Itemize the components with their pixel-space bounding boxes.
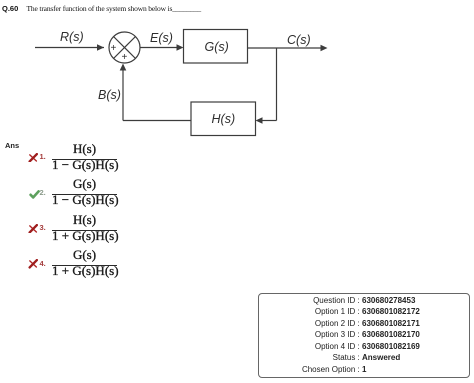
svg-text:C(s): C(s) [287,33,311,47]
svg-text:R(s): R(s) [60,30,84,44]
svg-text:+: + [111,43,117,54]
svg-text:G(s): G(s) [205,40,229,54]
svg-text:E(s): E(s) [150,31,173,45]
svg-text:H(s): H(s) [212,112,236,126]
svg-text:+: + [122,52,128,63]
svg-text:B(s): B(s) [98,88,121,102]
